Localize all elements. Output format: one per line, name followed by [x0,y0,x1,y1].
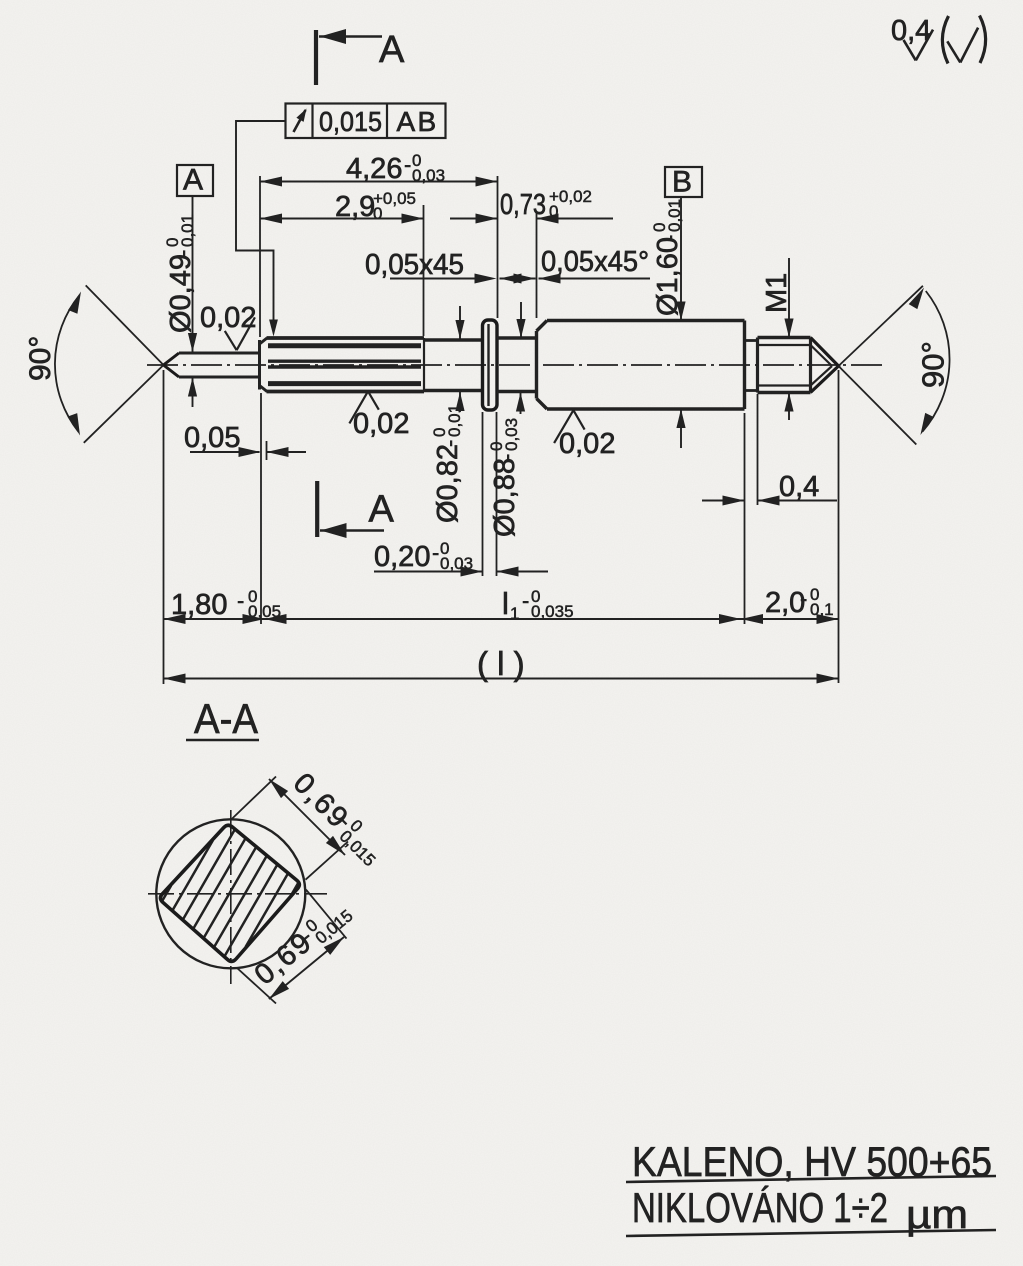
right center point cone [811,338,839,393]
surface finish 0,4 top right [891,15,986,64]
svg-text:0,03: 0,03 [502,418,521,451]
svg-text:0,01: 0,01 [445,404,464,437]
dia 0,82 dimension arrows [455,306,464,412]
chamfer arrows between flange and body [500,274,536,284]
svg-text:A-A: A-A [194,695,258,742]
dia 0,49 label rotated [163,214,197,333]
svg-text:Ø0,88: Ø0,88 [489,458,521,537]
section A-A square outline [160,825,299,961]
svg-text:A: A [183,164,203,197]
dimension (l) line and arrows [164,674,839,684]
note NIKLOVANO 1:2 um [626,1184,996,1237]
datum A leader and dia 0,49 dimension arrows [188,196,197,407]
extension line left tip [163,370,165,684]
section dimension 0,69 bottom right text [248,894,356,992]
svg-text:2,9: 2,9 [335,191,375,223]
svg-text:A: A [397,106,416,137]
svg-text:B: B [672,166,692,199]
svg-text:-: - [494,454,519,461]
svg-text:Ø1,60: Ø1,60 [652,237,684,316]
svg-text:-: - [237,588,244,613]
svg-text:90°: 90° [24,336,57,381]
svg-text:( l ): ( l ) [477,645,525,682]
svg-text:-: - [170,250,195,257]
section dimension 0,69 top right extension lines [231,777,348,880]
extension line flange left lower [482,412,484,576]
svg-text:-: - [522,588,529,613]
dimension 4,26 line and arrows [260,177,498,187]
svg-text:0,01: 0,01 [665,199,684,232]
dimension 0,20 lines and arrows [374,567,548,577]
extension line body left [536,212,538,318]
section A-A circle [156,819,305,968]
undercut groove 0,4 [745,341,758,391]
section cut marker A bottom [317,481,394,538]
extension line flange right upper [497,176,499,318]
neck section [497,338,537,392]
svg-text:NIKLOVÁNO 1÷2: NIKLOVÁNO 1÷2 [632,1184,888,1231]
note KALENO HV 500+65 [626,1138,996,1185]
knurled section outline dia 0,82 [267,338,425,392]
section dimension 0,69 top right text [286,766,390,870]
svg-text:-: - [657,235,682,242]
left 90 deg arc with arrows [55,292,81,436]
extension line knurl start upper [259,176,261,337]
svg-text:0,1: 0,1 [810,600,834,619]
svg-text:0,01: 0,01 [178,214,197,247]
dimension l1 arrows [719,614,763,624]
smooth section dia 0,82 [424,340,483,391]
svg-text:0,03: 0,03 [412,166,445,185]
section cut marker A top [316,29,405,85]
section title A-A [186,695,259,742]
svg-text:-: - [800,586,807,611]
svg-text:1: 1 [510,604,519,623]
svg-text:M1: M1 [761,273,793,313]
dimension 0,73 lines and arrows [450,214,613,224]
small shaft dia 0,49 [179,353,260,377]
left center point cone [164,353,180,377]
datum B box [665,166,702,199]
extension line flange right lower [496,412,498,576]
right 90 deg label [916,341,951,388]
svg-text:A: A [369,489,395,531]
dimension l1 text [502,586,574,623]
svg-text:0,02: 0,02 [559,428,615,460]
svg-text:0,20: 0,20 [374,541,430,573]
knurl right step [423,338,425,392]
svg-text:4,26: 4,26 [346,153,402,185]
thread M1 section [758,338,811,393]
flange dia 0,88 [483,320,498,410]
svg-text:0: 0 [549,202,558,221]
svg-text:0,035: 0,035 [531,602,574,621]
dimension 0,05 text and arrows [184,422,306,457]
extension line knurl end [423,205,425,336]
svg-text:0,05x45°: 0,05x45° [541,246,649,278]
svg-text:Ø0,82: Ø0,82 [432,444,464,523]
dimension 4,26 text [346,151,445,185]
roughness 0,02 under knurl [349,391,409,440]
knurl left face and chamfers [260,338,268,392]
section A-A hatching [162,830,298,956]
chamfer 0,05x45 left label [365,249,497,284]
left 90 deg cross lines [84,285,164,442]
dia 0,88 dimension arrows [516,302,526,414]
svg-text:B: B [418,106,437,137]
extension line body right [744,413,746,624]
section dimension 0,69 top right line and arrows [269,779,345,855]
section dimension 0,69 bottom right line and arrows [269,937,344,999]
geometric tolerance frame 0,015 A B [286,104,446,139]
dimension 2,0 text [765,585,834,619]
right 90 deg arc with arrows [909,288,950,436]
svg-text:0,73: 0,73 [500,189,546,221]
svg-text:Ø0,49: Ø0,49 [165,254,197,333]
dimension 0,4 text and arrows [702,471,837,506]
body dia 1,60 [537,321,745,410]
chamfer 0,05x45 right label [539,246,651,284]
svg-text:-: - [404,152,411,177]
roughness 0,02 under body [554,410,615,460]
dimension 0,73 text [500,187,592,221]
datum A box [177,164,213,197]
knurl spline lines [268,346,421,384]
svg-text:l: l [502,586,509,621]
wire centerline of shaft [147,364,882,366]
section A-A centerlines [148,810,327,984]
extension line knurl start lower [260,393,262,624]
left 90 deg label [24,336,57,381]
dimension 2,0 line and arrows [741,614,839,624]
extension line thread start [757,394,759,505]
svg-text:0: 0 [373,204,382,223]
datum B leader and dia 1,60 dimension [676,197,685,448]
svg-text:-: - [432,540,439,565]
svg-text:0,015: 0,015 [319,106,382,137]
thread M1 label and arrows [761,258,794,420]
dimension 2,9 text [335,189,416,223]
svg-text:0,05: 0,05 [248,602,281,621]
dimension 1,80 text [171,587,281,621]
roughness 0,02 on small shaft [200,302,256,350]
right 90 deg cross lines [839,286,923,445]
extension line chamfer 0,05 [266,441,268,460]
svg-text:A: A [379,29,405,71]
svg-text:0,05x45: 0,05x45 [365,249,464,281]
svg-text:0,05: 0,05 [184,422,240,454]
section dimension 0,69 bottom right extension lines [237,890,347,1004]
svg-text:0,02: 0,02 [353,408,409,440]
extension line right tip [838,370,840,683]
dia 0,88 label rotated [487,418,521,537]
dimension 1,80 line and arrows [164,614,742,624]
dia 0,82 label rotated [430,404,464,523]
dimension 0,20 text [374,539,473,573]
svg-text:90°: 90° [916,341,951,388]
dimension (l) text [477,645,525,682]
dia 1,60 label rotated [650,199,684,316]
svg-text:1,80: 1,80 [171,589,227,621]
dimension 2,9 line and arrows [260,214,424,224]
svg-text:-: - [437,440,462,447]
leader from tolerance frame to knurl [236,121,286,337]
svg-text:0,4: 0,4 [779,471,819,503]
